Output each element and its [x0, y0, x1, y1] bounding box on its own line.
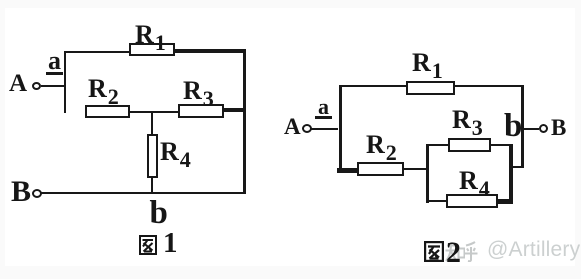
wire: bold block right vertical: [509, 144, 513, 204]
label R3: [452, 107, 483, 139]
wire: A to left vertical: [41, 85, 64, 87]
wire: b to B: [523, 128, 539, 131]
resistor R1: [406, 81, 455, 95]
terminal B circle: [32, 189, 42, 198]
caption Fig 2 glyph 图: [424, 241, 444, 262]
label R2: [88, 76, 119, 108]
label R4: [160, 139, 191, 171]
label R1: [135, 22, 166, 54]
node b: [504, 110, 522, 143]
terminal A circle: [302, 124, 312, 133]
watermark zhihu 乎: [464, 241, 478, 262]
wire: R2 to block: [404, 168, 427, 170]
node a underline (right): [315, 116, 332, 119]
wire: bold stub to R2: [337, 168, 358, 173]
background edge strips: [0, 0, 581, 8]
label R3: [183, 78, 214, 110]
node a (underlined): [318, 96, 329, 118]
wire: left vertical: [64, 51, 66, 113]
caption Fig 1 glyph 图: [139, 235, 157, 255]
wire: right vertical: [521, 85, 524, 168]
watermark zhihu 知: [445, 241, 465, 262]
resistor R4 (vertical): [147, 134, 158, 178]
wire: R3 row right: [491, 144, 509, 146]
resistor R2: [85, 105, 130, 118]
wire: top horizontal left of R1: [339, 85, 407, 88]
wire: middle horizontal R2 to R3: [130, 111, 179, 113]
wire: R4 row left: [428, 200, 446, 202]
watermark @Artillery: [487, 239, 580, 260]
wire: top left horizontal (a-node to R1): [64, 51, 130, 53]
terminal B: [551, 116, 566, 139]
wire: bold R4 row right: [498, 199, 513, 204]
wire: right vertical: [243, 49, 246, 195]
wire: A to left vertical: [310, 128, 338, 131]
caption Fig 2 numeral: [446, 238, 461, 268]
wire: block left vertical: [426, 144, 429, 203]
wire: bold R3 to right vertical: [224, 108, 246, 112]
resistor R3: [448, 138, 491, 152]
wire: R4 down to B line: [151, 178, 153, 193]
resistor R3: [178, 104, 224, 118]
terminal A: [284, 115, 301, 138]
wire: bold from R1 to right vertical: [175, 49, 246, 54]
terminal B circle: [539, 124, 548, 133]
terminal A circle: [32, 82, 41, 90]
label R4: [459, 168, 490, 200]
resistor R1: [129, 43, 175, 56]
wire: top horizontal right of R1: [455, 85, 524, 88]
terminal B: [11, 177, 31, 207]
terminal A: [9, 71, 27, 96]
wire: B horizontal: [41, 192, 246, 194]
resistor R4: [446, 194, 498, 208]
wire: R3 row left: [428, 144, 449, 146]
wire: left vertical: [339, 85, 342, 172]
node a (underlined): [48, 48, 61, 74]
wire: corner connector: [511, 166, 524, 168]
label R2: [366, 132, 397, 164]
node b: [150, 197, 168, 230]
caption Fig 1 numeral: [163, 229, 178, 258]
wire: junction down to R4: [151, 113, 153, 134]
resistor R2: [357, 162, 404, 176]
label R1: [412, 50, 443, 82]
node a underline: [46, 72, 63, 75]
